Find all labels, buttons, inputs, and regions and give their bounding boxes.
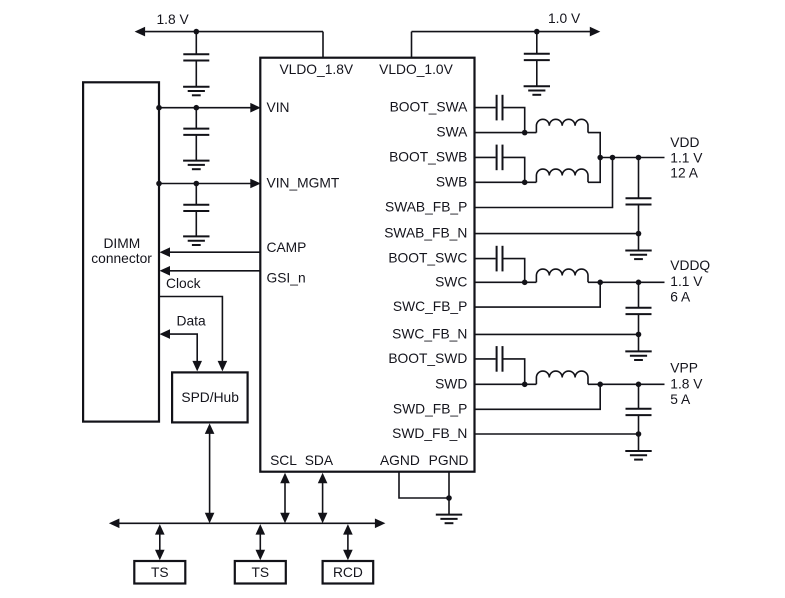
wire CAMP — [168, 251, 260, 253]
wire bus to TS (right) — [259, 532, 261, 552]
wire PGND — [448, 472, 450, 515]
wire 1.0V rail horizontal — [412, 31, 591, 33]
junction dot VDDQ FB_N — [636, 332, 642, 338]
net label VPP — [670, 361, 698, 376]
capacitor bootstrap CSWC — [497, 246, 503, 272]
block DIMM connector — [83, 82, 159, 421]
wire BOOT_SWB to SWSWB — [504, 157, 525, 182]
wire BOOT_SWA lead — [475, 107, 496, 109]
junction dot VDDQ cap — [636, 280, 642, 286]
pin label SWC_FB_N — [392, 327, 467, 342]
arrowhead GSI_n into DIMM — [160, 266, 171, 276]
wire AGND — [399, 472, 449, 498]
arrowhead up to bus at TS (left) — [155, 524, 165, 535]
arrowhead Data into DIMM — [160, 329, 171, 339]
svg-text:AGND: AGND — [380, 453, 420, 468]
svg-text:VIN: VIN — [267, 100, 290, 115]
junction dot VIN at DIMM — [156, 105, 162, 111]
wire SWD_FB_N — [475, 433, 639, 435]
pin label BOOT_SWD — [388, 351, 467, 366]
wire SWB lead — [475, 181, 537, 183]
wire BOOT_SWD to SWSWD — [504, 359, 525, 384]
junction dot SWSWD — [522, 382, 528, 388]
wire BOOT_SWA to SWSWA — [504, 108, 525, 133]
svg-text:SWAB_FB_N: SWAB_FB_N — [384, 226, 467, 241]
block SPD/Hub — [172, 372, 248, 422]
pin label SWD_FB_P — [393, 401, 467, 416]
capacitor VIN_MGMT bypass — [183, 205, 209, 211]
ground VPP output — [625, 451, 651, 460]
pin label SWD — [435, 376, 467, 391]
block TS (right) — [235, 561, 286, 584]
block PMIC (main IC) — [260, 58, 474, 472]
svg-text:12 A: 12 A — [670, 166, 698, 181]
pin label SDA — [305, 453, 334, 468]
wire SWC_FB_P — [475, 282, 601, 307]
ground below 1.0V cap — [524, 86, 550, 95]
arrowhead 1.8V rail left — [135, 27, 146, 37]
junction dot VPP FB_N — [636, 431, 642, 437]
wire BOOT_SWC to SWSWC — [504, 259, 525, 283]
junction dot VDD phases join — [597, 155, 603, 161]
junction dot VIN cap — [194, 105, 200, 111]
capacitor VPP output — [626, 409, 652, 415]
junction dot VIN_MGMT cap — [194, 181, 200, 187]
pin label SWAB_FB_P — [385, 200, 467, 215]
pin label VIN_MGMT — [267, 175, 340, 190]
wire SWAB_FB_N — [475, 233, 639, 235]
wire VLDO_1.0V stub from IC top — [411, 32, 413, 58]
svg-text:TS: TS — [251, 565, 269, 580]
junction dot VPP cap — [636, 382, 642, 388]
wire VIN cap bottom lead — [195, 135, 197, 161]
ground VDD output — [625, 251, 651, 260]
svg-text:SWD_FB_P: SWD_FB_P — [393, 401, 467, 416]
pin label VIN — [267, 100, 290, 115]
capacitor VDD output — [626, 198, 652, 204]
wire GSI_n — [168, 270, 260, 272]
arrowhead SCL down to bus — [280, 513, 290, 524]
svg-text:SWC_FB_P: SWC_FB_P — [393, 299, 467, 314]
wire BOOT_SWC lead — [475, 258, 496, 260]
wire VDD FB_N to ground — [638, 234, 640, 251]
svg-text:BOOT_SWA: BOOT_SWA — [390, 100, 468, 115]
wire VPP FB_N to ground — [638, 434, 640, 451]
arrowhead 1.0V rail right — [590, 27, 601, 37]
pin label SWB — [436, 174, 467, 189]
arrowhead bus right — [375, 519, 386, 529]
svg-text:VLDO_1.0V: VLDO_1.0V — [379, 62, 453, 77]
wire SDA link — [322, 481, 324, 515]
svg-text:SWD: SWD — [435, 376, 467, 391]
pin label SWAB_FB_N — [384, 226, 467, 241]
arrowhead down into RCD — [343, 550, 353, 561]
wire SPD/Hub to bus — [209, 431, 211, 514]
wire VDD cap top lead — [638, 158, 640, 199]
inductor LA — [536, 119, 588, 132]
net label VDD — [670, 135, 699, 150]
wire 1.0V cap top lead — [536, 32, 538, 54]
svg-text:1.0 V: 1.0 V — [548, 11, 581, 26]
net label Clock — [166, 276, 201, 291]
svg-text:SWAB_FB_P: SWAB_FB_P — [385, 200, 467, 215]
svg-text:VDD: VDD — [670, 135, 699, 150]
junction dot VDD FB_N — [636, 231, 642, 237]
wire VDDQ rail — [588, 281, 665, 283]
wire BOOT_SWD lead — [475, 358, 496, 360]
arrowhead down into TS (left) — [155, 550, 165, 561]
wire 1.8V rail horizontal — [137, 31, 323, 33]
wire BOOT_SWB lead — [475, 156, 496, 158]
inductor LC — [536, 269, 588, 282]
wire bus to RCD — [347, 532, 349, 552]
net label VDD 12 A — [670, 166, 698, 181]
pin label BOOT_SWB — [389, 150, 467, 165]
net label VPP 1.8 V — [670, 377, 703, 392]
wire VLDO_1.8V stub to IC top — [322, 32, 324, 58]
svg-text:CAMP: CAMP — [267, 240, 307, 255]
svg-text:SWD_FB_N: SWD_FB_N — [392, 426, 467, 441]
junction dot VDDQ feedback join — [597, 280, 603, 286]
net label Data — [177, 313, 206, 328]
junction dot VPP feedback join — [597, 382, 603, 388]
wire SWAB_FB_P — [475, 158, 613, 208]
svg-text:SWB: SWB — [436, 174, 467, 189]
pin label AGND — [380, 453, 420, 468]
wire SWD_FB_P — [475, 384, 601, 409]
capacitor VIN bypass — [183, 129, 209, 135]
wire I2C bus — [119, 522, 375, 524]
arrowhead link up into SPD/Hub — [205, 423, 215, 434]
arrowhead SCL up into IC — [280, 473, 290, 484]
ground PGND — [436, 515, 462, 524]
svg-text:BOOT_SWC: BOOT_SWC — [388, 251, 467, 266]
wire VPP rail — [588, 383, 665, 385]
ground below VIN_MGMT cap — [183, 236, 209, 245]
wire VIN_MGMT cap bottom lead — [195, 211, 197, 236]
pin label SWA — [436, 125, 468, 140]
svg-text:1.1 V: 1.1 V — [670, 150, 703, 165]
svg-text:VPP: VPP — [670, 361, 698, 376]
svg-text:TS: TS — [151, 565, 169, 580]
wire VPP cap bottom lead — [638, 415, 640, 434]
pin label VLDO_1.0V — [379, 62, 453, 77]
capacitor 1.0V bypass — [524, 54, 550, 60]
svg-text:RCD: RCD — [333, 565, 363, 580]
arrowhead bus left — [109, 519, 120, 529]
pin label CAMP — [267, 240, 307, 255]
svg-text:connector: connector — [91, 251, 152, 266]
svg-text:GSI_n: GSI_n — [267, 271, 306, 286]
arrowhead up to bus at TS (right) — [256, 524, 266, 535]
wire 1.8V cap top lead — [195, 32, 197, 55]
arrowhead down into TS (right) — [256, 550, 266, 561]
junction dot VIN_MGMT at DIMM — [156, 181, 162, 187]
wire 1.8V cap bottom lead — [195, 61, 197, 87]
svg-text:SWA: SWA — [436, 125, 468, 140]
pin label GSI_n — [267, 271, 306, 286]
svg-text:BOOT_SWD: BOOT_SWD — [388, 351, 467, 366]
wire VIN — [159, 107, 251, 109]
wire SWA lead — [475, 132, 537, 134]
capacitor bootstrap CSWD — [497, 346, 503, 372]
svg-text:SWC_FB_N: SWC_FB_N — [392, 327, 467, 342]
svg-text:6 A: 6 A — [670, 289, 691, 304]
svg-text:1.1 V: 1.1 V — [670, 274, 703, 289]
arrowhead VIN into IC — [250, 103, 260, 113]
wire VDDQ cap top lead — [638, 282, 640, 308]
junction dot AGND-PGND — [446, 495, 452, 501]
ground VDDQ output — [625, 351, 651, 360]
arrowhead SDA down to bus — [318, 513, 328, 524]
pin label PGND — [429, 453, 469, 468]
svg-text:SWC: SWC — [435, 274, 467, 289]
junction dot SWSWC — [522, 280, 528, 286]
pin label VLDO_1.8V — [279, 62, 353, 77]
svg-text:5 A: 5 A — [670, 392, 691, 407]
block RCD — [323, 561, 374, 584]
svg-text:1.8 V: 1.8 V — [670, 377, 703, 392]
net label 1.8 V — [157, 12, 190, 27]
net label VDDQ 1.1 V — [670, 274, 703, 289]
block TS (left) — [134, 561, 185, 584]
wire Data — [168, 334, 197, 362]
capacitor bootstrap CSWB — [497, 145, 503, 171]
junction dot VDD feedback join — [610, 155, 616, 161]
svg-text:PGND: PGND — [429, 453, 469, 468]
net label VPP 5 A — [670, 392, 691, 407]
wire bus to TS (left) — [159, 532, 161, 552]
wire SWC_FB_N — [475, 333, 639, 335]
wire SWD lead — [475, 383, 537, 385]
svg-text:Clock: Clock — [166, 276, 201, 291]
junction dot VDD cap — [636, 155, 642, 161]
arrowhead VIN_MGMT into IC — [250, 179, 260, 189]
wire SWC lead — [475, 281, 537, 283]
arrowhead up to bus at RCD — [343, 524, 353, 535]
wire VDDQ cap bottom lead — [638, 314, 640, 334]
ground below VIN cap — [183, 161, 209, 170]
svg-text:BOOT_SWB: BOOT_SWB — [389, 150, 467, 165]
svg-text:1.8 V: 1.8 V — [157, 12, 190, 27]
wire VDD cap bottom lead — [638, 205, 640, 234]
pin label SCL — [270, 453, 297, 468]
capacitor bootstrap CSWA — [497, 95, 503, 121]
net label VDD 1.1 V — [670, 150, 703, 165]
junction dot 1.8V rail — [194, 29, 200, 35]
junction dot 1.0V rail — [534, 29, 540, 35]
junction dot SWSWA — [522, 130, 528, 136]
pin label BOOT_SWA — [390, 100, 468, 115]
wire SWB inductor out — [588, 158, 600, 183]
net label VDDQ 6 A — [670, 289, 691, 304]
wire VDD rail — [600, 157, 664, 159]
pin label SWD_FB_N — [392, 426, 467, 441]
arrowhead link down to bus — [205, 513, 215, 524]
svg-text:SPD/Hub: SPD/Hub — [181, 390, 239, 405]
junction dot SWSWB — [522, 180, 528, 186]
net label VDDQ — [670, 258, 710, 273]
wire 1.0V cap bottom lead — [536, 60, 538, 86]
svg-text:SCL: SCL — [270, 453, 297, 468]
ground below 1.8V cap — [183, 87, 209, 96]
wire VIN cap top lead — [195, 108, 197, 129]
capacitor 1.8V bypass — [183, 54, 209, 60]
pin label SWC_FB_P — [393, 299, 467, 314]
inductor LB — [536, 169, 588, 182]
arrowhead CAMP into DIMM — [160, 247, 171, 257]
arrowhead Data into SPD/Hub — [192, 361, 202, 372]
arrowhead Clock into SPD/Hub — [218, 361, 228, 372]
pin label BOOT_SWC — [388, 251, 467, 266]
wire Clock — [159, 297, 222, 363]
capacitor VDDQ output — [626, 308, 652, 314]
wire SWA inductor out — [588, 133, 600, 158]
svg-text:DIMM: DIMM — [103, 236, 140, 251]
wire VPP cap top lead — [638, 384, 640, 409]
wire VIN_MGMT cap top lead — [195, 184, 197, 205]
inductor LD — [536, 371, 588, 384]
arrowhead SDA up into IC — [318, 473, 328, 484]
svg-text:SDA: SDA — [305, 453, 334, 468]
pin label SWC — [435, 274, 467, 289]
svg-text:VIN_MGMT: VIN_MGMT — [267, 175, 340, 190]
svg-text:VDDQ: VDDQ — [670, 258, 710, 273]
svg-text:Data: Data — [177, 313, 206, 328]
wire SCL link — [284, 481, 286, 515]
svg-text:VLDO_1.8V: VLDO_1.8V — [279, 62, 353, 77]
wire VIN_MGMT — [159, 183, 251, 185]
net label 1.0 V — [548, 11, 581, 26]
wire VDDQ FB_N to ground — [638, 334, 640, 351]
